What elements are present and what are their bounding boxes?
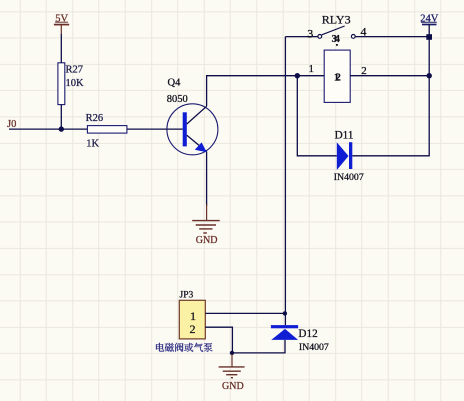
svg-text:2: 2	[336, 73, 341, 84]
svg-text:D11: D11	[335, 129, 354, 141]
power port 24V	[421, 22, 437, 24]
svg-text:3: 3	[307, 26, 313, 40]
junction node coil2/24V rail	[427, 73, 432, 78]
wire node to D11 anode	[297, 76, 337, 156]
junction node JP3 pin2/GND/D12	[230, 351, 234, 355]
svg-text:IN4007: IN4007	[299, 342, 329, 353]
resistor R26	[87, 126, 127, 134]
relay contact pin 4	[351, 35, 355, 39]
svg-text:2: 2	[190, 322, 196, 336]
wire pin4 to 24V rail	[355, 36, 429, 38]
power port 5V	[54, 22, 69, 34]
svg-text:4: 4	[335, 34, 341, 45]
svg-text:Q4: Q4	[168, 77, 182, 88]
svg-text:24V: 24V	[420, 13, 439, 24]
diode D11	[337, 142, 349, 170]
svg-text:IN4007: IN4007	[334, 172, 364, 183]
svg-text:D12: D12	[298, 328, 317, 340]
wire contact pin3 to down-branch	[285, 36, 318, 38]
svg-text:1: 1	[309, 63, 315, 75]
svg-text:GND: GND	[196, 235, 218, 246]
svg-text:GND: GND	[222, 381, 244, 392]
svg-text:R26: R26	[86, 113, 104, 124]
svg-text:10K: 10K	[66, 78, 85, 89]
junction node collector/coil1/D11	[295, 73, 300, 78]
svg-text:RLY3: RLY3	[322, 13, 351, 27]
junction node JP3 pin1/D12	[283, 311, 287, 315]
resistor R27	[58, 63, 65, 105]
diode D12	[271, 325, 298, 328]
wire relay contact branch down to D12	[284, 37, 286, 326]
wire R27 to node	[60, 105, 62, 130]
label 电磁阀或气泵	[156, 343, 213, 352]
relay coil box	[324, 50, 350, 102]
svg-text:R27: R27	[66, 64, 84, 75]
wire Q4 emitter down	[206, 152, 208, 206]
wire 5V to R27	[60, 34, 62, 63]
transistor Q4	[167, 104, 218, 155]
square junction pin4/24V	[426, 34, 432, 40]
wire JP3 pin 2 to GND	[205, 327, 232, 353]
svg-text:8050: 8050	[167, 94, 188, 105]
relay switch blade	[322, 26, 345, 35]
svg-text:1: 1	[190, 309, 196, 323]
junction node R27/J0/R26	[59, 126, 64, 131]
wire Q4 collector up and right to relay coil pin 1	[207, 76, 325, 107]
wire J0 to Q4 base	[9, 128, 183, 130]
relay contact pin 3	[318, 35, 322, 39]
svg-text:5V: 5V	[55, 13, 68, 24]
ground GND (bottom)	[219, 354, 245, 378]
svg-text:1K: 1K	[86, 138, 99, 149]
wire coil pin 2 to 24V rail	[350, 75, 429, 77]
wire 24V rail down to D11	[352, 25, 429, 156]
ground GND (transistor emitter)	[192, 204, 220, 233]
svg-text:JP3: JP3	[180, 290, 194, 300]
wire JP3 pin 1 to D12 node	[205, 312, 285, 314]
wire D12 anode down to GND row	[232, 340, 285, 353]
